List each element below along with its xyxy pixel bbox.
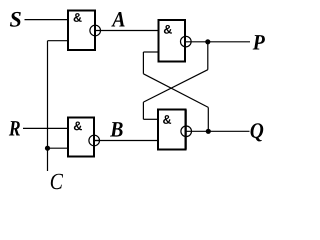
wire B stub through bubble (94, 140, 100, 142)
inverter bubble U4 (181, 126, 192, 137)
U4 right edge over bubble (185, 110, 187, 150)
nand gate U2 (68, 118, 94, 157)
wire C to U2 input 2 (48, 147, 68, 149)
wire S to U1 input 1 (25, 19, 68, 21)
wire Q: U4 output (186, 130, 250, 132)
wire P: U3 output (185, 41, 250, 43)
label Q (250, 123, 263, 141)
label S (10, 12, 21, 27)
wire riser from P node (207, 42, 209, 70)
label R (9, 121, 20, 135)
U2 right edge over bubble (93, 118, 95, 157)
U3 right edge over bubble (184, 20, 186, 62)
wire B: U2 output to U4 input 2 (95, 140, 157, 142)
U4 function label & (163, 115, 171, 124)
label C (51, 174, 63, 189)
nand gate U3 (159, 20, 186, 62)
label A (111, 12, 124, 27)
wire A: U1 output to U3 input 1 (96, 30, 158, 32)
wire riser to U4 input 1 (142, 102, 144, 119)
wire U3 input 2 horizontal (143, 51, 157, 53)
U1 function label & (74, 13, 82, 22)
U1 right edge over bubble (94, 11, 96, 51)
U3 function label & (164, 25, 172, 34)
inverter bubble U3 (181, 36, 192, 47)
nand gate U1 (68, 11, 95, 51)
junction dot C node (45, 146, 50, 151)
label P (253, 35, 265, 49)
junction dot P node (205, 39, 210, 44)
junction dot Q node (206, 129, 211, 134)
U2 function label & (74, 122, 82, 131)
wire U4 input 1 horizontal (143, 118, 157, 120)
inverter bubble U2 (89, 135, 100, 146)
wire riser U3in2 down (142, 52, 144, 74)
nand gate U4 (158, 110, 186, 150)
wire diagonal Q-feedback (143, 74, 208, 108)
wire diagonal P-feedback (143, 70, 207, 102)
inverter bubble U1 (90, 25, 101, 36)
wire R to U2 input 1 (23, 127, 67, 129)
wire C to U1 input 2 (48, 40, 68, 42)
wire riser to Q node (207, 107, 209, 131)
label B (110, 122, 123, 136)
wire C riser vertical (47, 41, 49, 171)
